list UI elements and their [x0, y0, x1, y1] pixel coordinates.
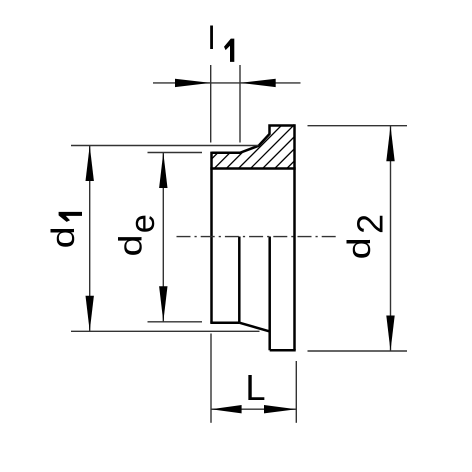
- bore edge lower vertical: [238, 237, 241, 323]
- l1 right arrow (points left, tip at 240,82.9): [240, 79, 276, 87]
- l1 left arrow (points right, tip at 210.7,82.9): [175, 79, 211, 87]
- d2 dimension line: [390, 126, 392, 351]
- flange bottom edge: [270, 349, 296, 352]
- l1 dimension line: [153, 82, 301, 84]
- flange left face lower vertical: [268, 237, 271, 351]
- part outline (upper half, sectioned): [210, 124, 295, 350]
- outline top profile: [212, 126, 295, 153]
- L left arrow (points left, tip at 211,409.2): [211, 405, 242, 413]
- arrows (slender): [86, 79, 395, 414]
- label l1: subscript 1 (custom glyph): [224, 39, 234, 62]
- svg-text:L: L: [245, 367, 265, 408]
- de dimension line: [162, 153, 164, 322]
- d2 bottom arrow (down): [386, 316, 394, 352]
- centerline: [177, 236, 337, 238]
- L dimension line: [211, 408, 296, 410]
- L extension lines: [210, 334, 212, 423]
- d1 top arrow (up): [86, 146, 94, 182]
- label d1: subscript 1 (custom glyph, rotated): [59, 212, 82, 222]
- de top arrow (up): [159, 153, 167, 189]
- d1 extension lines: [71, 145, 259, 147]
- l1 extension lines: [210, 65, 212, 143]
- d1 dimension line: [89, 146, 91, 332]
- de bottom arrow (down): [159, 286, 167, 322]
- right edge: [293, 124, 296, 350]
- svg-text:d: d: [112, 234, 149, 256]
- cone slant lower: [239, 323, 269, 332]
- thin dimension/extension lines: [71, 65, 407, 423]
- svg-text:l: l: [208, 20, 215, 56]
- left edge: [210, 152, 213, 323]
- svg-text:d: d: [341, 237, 378, 259]
- d1 bottom arrow (down): [86, 296, 94, 332]
- bore line: [210, 167, 295, 170]
- svg-text:e: e: [124, 214, 162, 233]
- svg-text:2: 2: [350, 214, 390, 234]
- hatching of section: [191, 120, 348, 180]
- d2 extension lines: [308, 125, 408, 127]
- de extension lines: [148, 152, 203, 154]
- bottom surface: [210, 321, 239, 324]
- L right arrow (points right, tip at 296.3,409.2): [264, 405, 296, 413]
- d2 top arrow (up): [386, 126, 394, 162]
- svg-text:d: d: [45, 226, 82, 248]
